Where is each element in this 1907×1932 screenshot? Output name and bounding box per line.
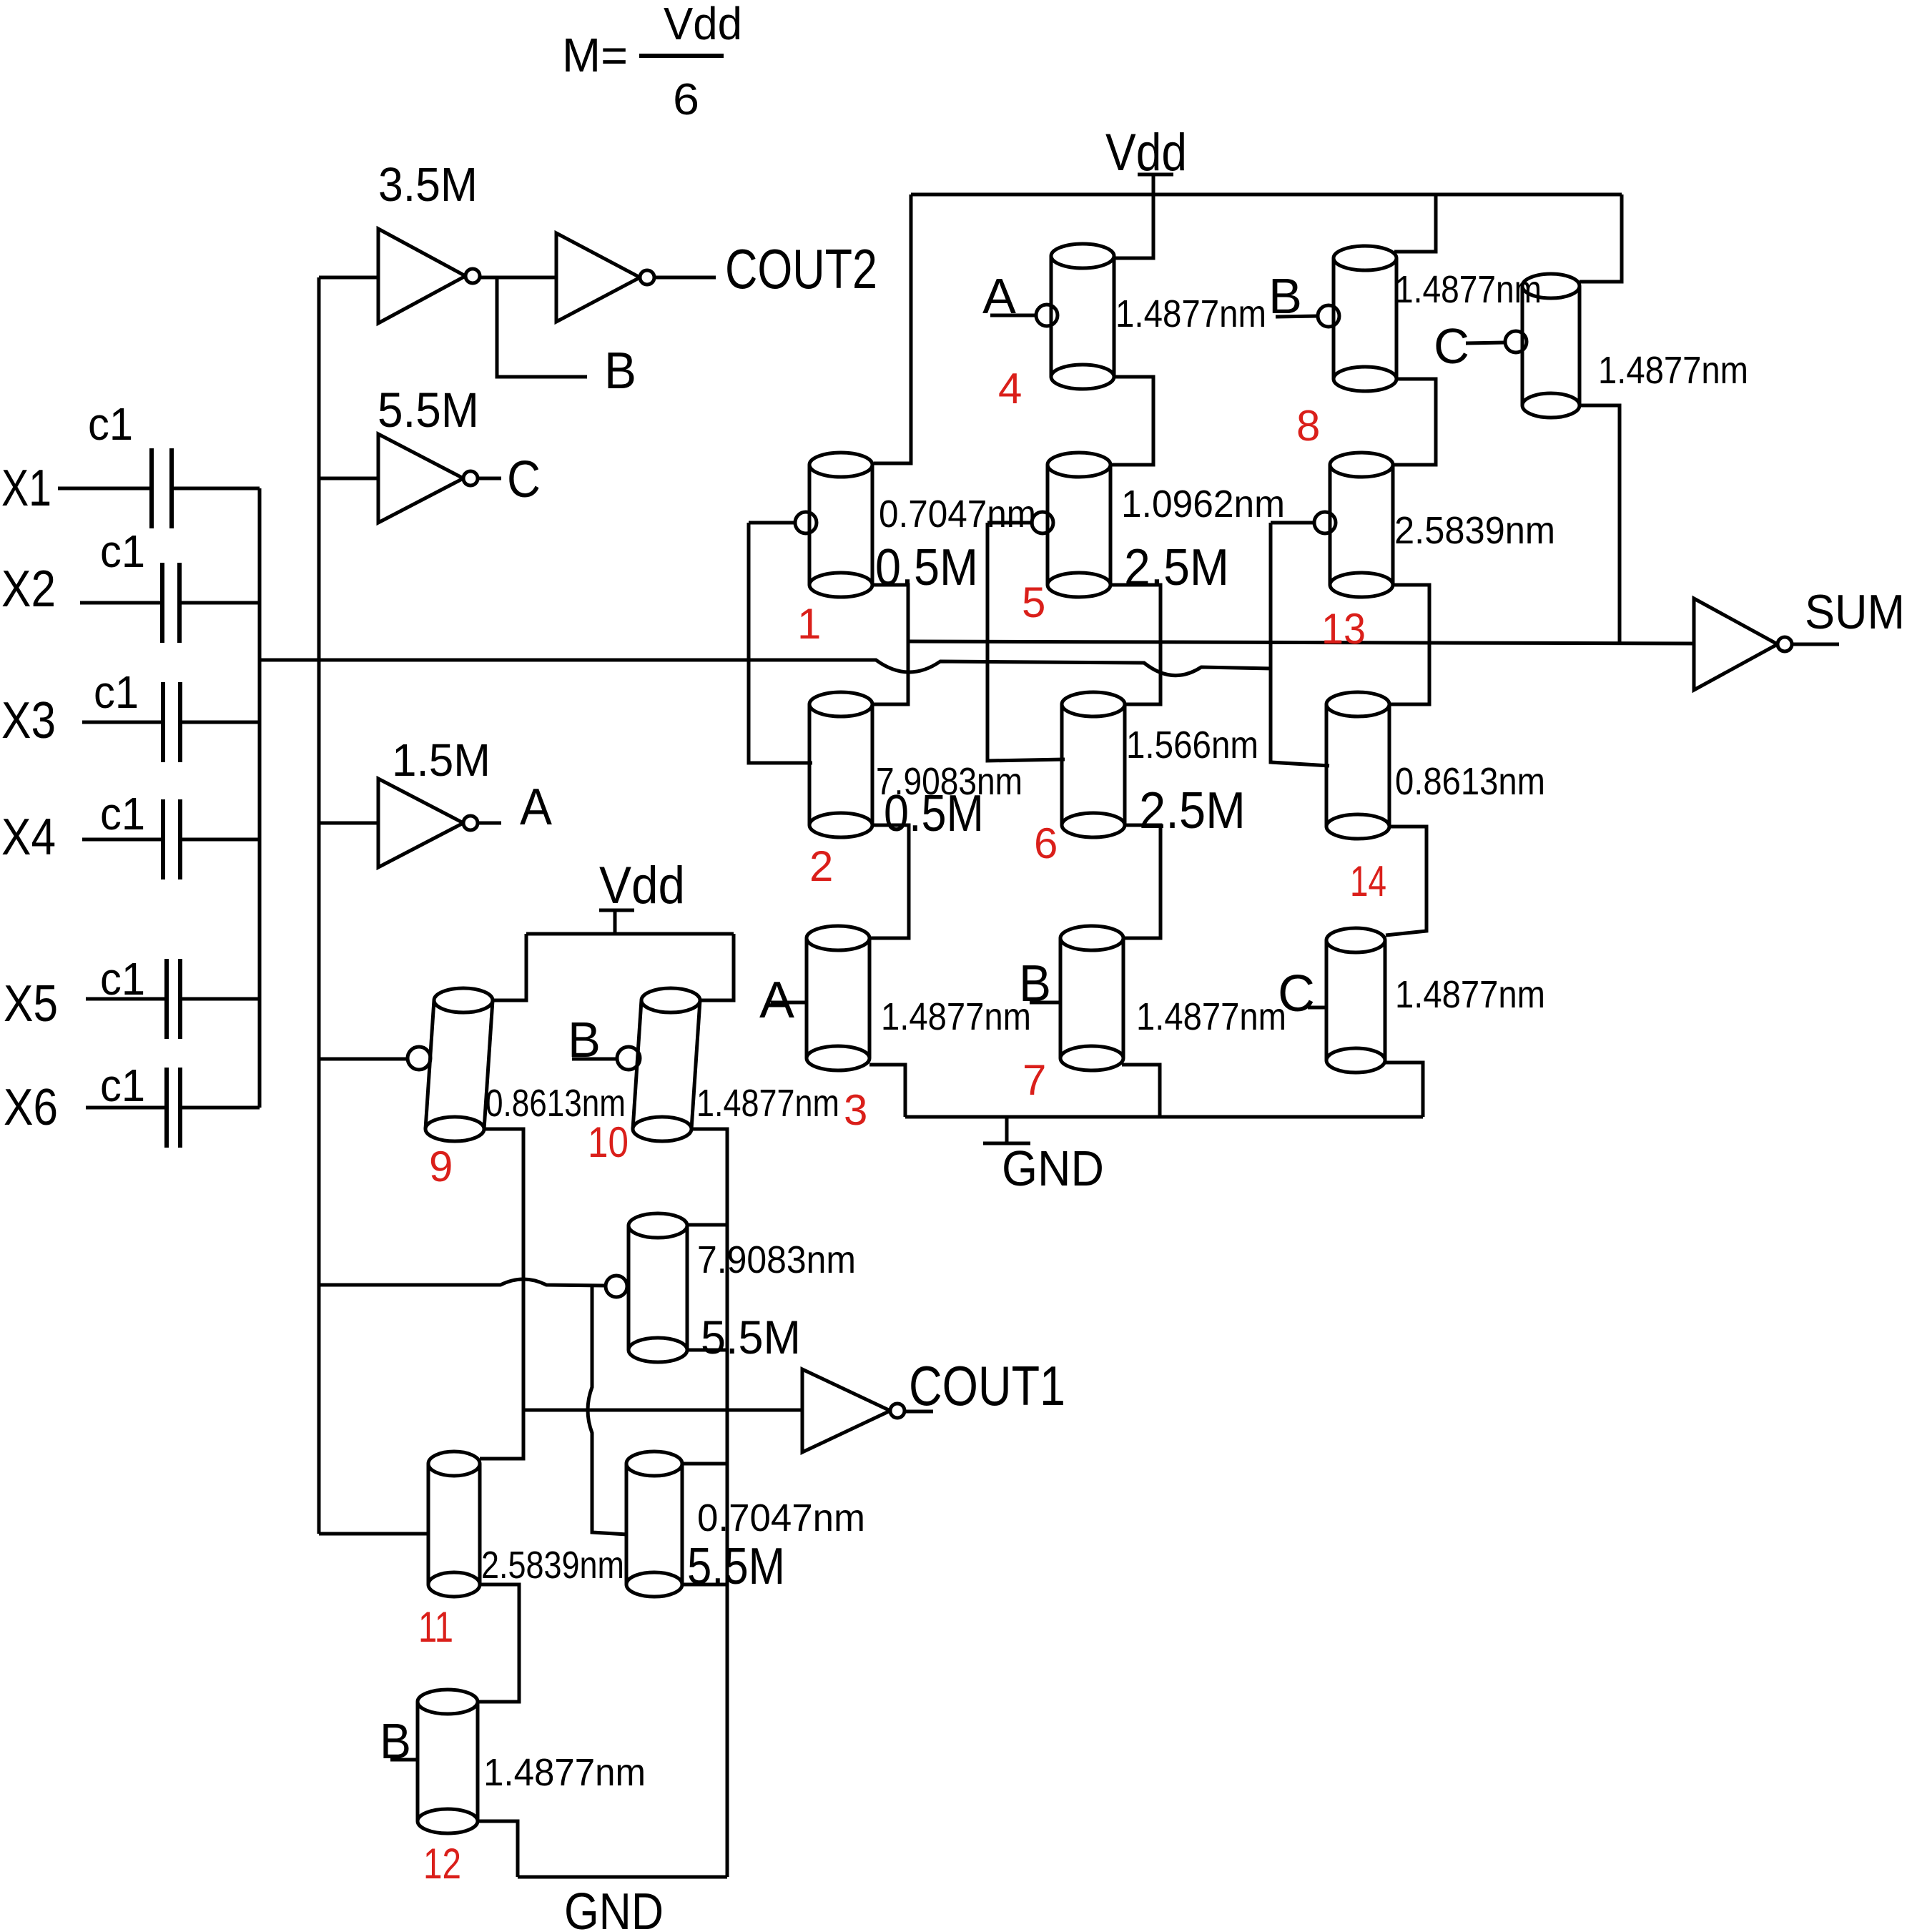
wire A to transistor 3 gate bbox=[771, 1001, 807, 1005]
gate bubble transistor 10 bbox=[617, 1047, 640, 1070]
svg-text:5.5M: 5.5M bbox=[378, 383, 479, 438]
transistor 1 (PMOS CNTFET, 0.7047nm 0.5M) bbox=[809, 453, 872, 597]
svg-text:c1: c1 bbox=[94, 666, 139, 718]
wire C to transistor C8 gate bbox=[1466, 342, 1505, 343]
inverter U1 (3.5M) bbox=[378, 229, 480, 323]
wire gate branch down to 0.7047nm transistor gate (hop over COUT1 net) bbox=[588, 1286, 627, 1534]
transistor 9 (PMOS CNTFET, 0.8613nm) bbox=[425, 988, 493, 1141]
svg-text:14: 14 bbox=[1350, 857, 1386, 905]
transistor 10 (PMOS CNTFET, 1.4877nm) bbox=[633, 988, 700, 1141]
formula M = Vdd/6 bbox=[562, 0, 742, 124]
wire X5 to capacitor bbox=[86, 997, 167, 1001]
gate bubble 7.9083nm transistor bbox=[606, 1276, 627, 1297]
svg-text:A: A bbox=[759, 972, 794, 1029]
svg-text:X6: X6 bbox=[4, 1079, 58, 1136]
transistor 3 (NMOS CNTFET, A gate, 1.4877nm) bbox=[807, 926, 869, 1070]
capacitor c1 (X1) bbox=[152, 448, 172, 528]
wire transistor 2 to transistor 3 bbox=[869, 825, 909, 938]
wire C to transistor C14 gate bbox=[1308, 1006, 1325, 1010]
svg-text:1: 1 bbox=[797, 600, 821, 648]
svg-text:c1: c1 bbox=[100, 953, 145, 1005]
wire node B tap bbox=[497, 277, 587, 377]
svg-text:1.5M: 1.5M bbox=[392, 734, 491, 786]
svg-text:0.5M: 0.5M bbox=[875, 539, 978, 596]
svg-text:c1: c1 bbox=[88, 398, 133, 450]
svg-text:1.4877nm: 1.4877nm bbox=[1395, 973, 1545, 1016]
svg-text:1.4877nm: 1.4877nm bbox=[881, 995, 1031, 1038]
capacitor c1 (X6) bbox=[167, 1068, 180, 1148]
svg-text:1.4877nm: 1.4877nm bbox=[483, 1751, 646, 1794]
wire B to transistor 7 gate bbox=[1030, 1001, 1061, 1005]
wire transistor C14 to ground rail bbox=[1385, 1063, 1423, 1117]
transistor N16 (NMOS CNTFET, 0.7047nm 5.5M) bbox=[626, 1452, 682, 1597]
svg-text:3.5M: 3.5M bbox=[378, 158, 478, 212]
svg-text:1.4877nm: 1.4877nm bbox=[1115, 292, 1266, 335]
svg-text:Vdd: Vdd bbox=[664, 0, 742, 49]
wire X1 to capacitor bbox=[58, 487, 152, 491]
Vdd symbol (COUT1 network) bbox=[599, 910, 634, 934]
transistor 5 (PMOS CNTFET, 1.0962nm 2.5M) bbox=[1048, 453, 1110, 597]
svg-text:C: C bbox=[1434, 318, 1469, 374]
transistor 14 (NMOS CNTFET, 0.8613nm) bbox=[1326, 692, 1389, 839]
svg-text:Vdd: Vdd bbox=[599, 857, 685, 915]
svg-text:0.7047nm: 0.7047nm bbox=[697, 1497, 865, 1539]
wire U4 output to A bbox=[478, 822, 501, 825]
transistor 13 (PMOS CNTFET, 2.5839nm) bbox=[1330, 453, 1393, 597]
svg-text:X4: X4 bbox=[1, 809, 56, 866]
wire bus to inverter U3 bbox=[319, 477, 378, 480]
gate loop transistors 13/14 bbox=[1271, 523, 1329, 766]
wire X2 to capacitor bbox=[80, 601, 162, 605]
svg-text:1.4877nm: 1.4877nm bbox=[696, 1082, 839, 1125]
wire rail down to transistor 1 bbox=[874, 194, 911, 463]
svg-text:11: 11 bbox=[418, 1603, 453, 1651]
wire U3 output to C bbox=[478, 477, 501, 480]
gate loop transistors 5/6 (2.5M pair) bbox=[987, 523, 1065, 761]
svg-text:6: 6 bbox=[673, 75, 699, 124]
inverter feed bus bbox=[317, 277, 321, 1534]
svg-text:2: 2 bbox=[809, 842, 833, 890]
wire capacitor (X4) to bus bbox=[180, 838, 260, 842]
svg-text:COUT1: COUT1 bbox=[909, 1354, 1065, 1417]
wire capacitor (X5) to bus bbox=[180, 997, 260, 1001]
svg-text:M=: M= bbox=[562, 29, 628, 82]
gate bubble transistor 9 bbox=[408, 1047, 430, 1070]
svg-text:SUM: SUM bbox=[1805, 585, 1905, 639]
transistor C8 (PMOS CNTFET, 1.4877nm) bbox=[1522, 274, 1580, 418]
svg-text:6: 6 bbox=[1034, 819, 1058, 867]
wire tap to 7.9083nm transistor top bbox=[688, 1223, 727, 1227]
svg-text:5.5M: 5.5M bbox=[701, 1311, 801, 1364]
svg-text:COUT2: COUT2 bbox=[725, 237, 877, 300]
Vdd symbol (SUM network) bbox=[1138, 174, 1173, 194]
gate bubble transistor 4 bbox=[1036, 305, 1058, 326]
svg-text:2.5839nm: 2.5839nm bbox=[1394, 509, 1555, 552]
wire bus to inverter U4 bbox=[319, 822, 378, 825]
gate bubble transistor C8 bbox=[1505, 331, 1527, 353]
svg-text:1.4877nm: 1.4877nm bbox=[1598, 349, 1748, 392]
svg-text:0.7047nm: 0.7047nm bbox=[879, 493, 1036, 536]
transistor 12 (NMOS CNTFET, B gate, 1.4877nm) bbox=[418, 1690, 478, 1833]
svg-text:1.4877nm: 1.4877nm bbox=[1395, 268, 1542, 311]
gate loop transistors 1/2 (0.5M pair) bbox=[749, 523, 812, 763]
Vdd rail (COUT1 network) bbox=[526, 932, 734, 936]
svg-text:A: A bbox=[520, 779, 552, 836]
wire rail down to transistor 9 bbox=[485, 934, 526, 1000]
svg-text:1.0962nm: 1.0962nm bbox=[1121, 483, 1285, 526]
wire X3 to capacitor bbox=[82, 721, 163, 724]
wire transistor 3 to ground rail bbox=[869, 1065, 905, 1117]
wire B to transistor 8 gate bbox=[1276, 316, 1318, 317]
transistor 11 (NMOS CNTFET, 2.5839nm) bbox=[428, 1452, 480, 1597]
ground rail (SUM network) bbox=[905, 1115, 1423, 1119]
svg-text:2.5M: 2.5M bbox=[1139, 782, 1246, 839]
svg-text:10: 10 bbox=[588, 1118, 629, 1166]
wire transistor 7 to ground rail bbox=[1122, 1065, 1160, 1117]
gate bubble transistor 5 bbox=[1032, 512, 1053, 533]
svg-text:X3: X3 bbox=[1, 692, 56, 749]
svg-text:7.9083nm: 7.9083nm bbox=[697, 1238, 856, 1281]
wire B to transistor 10 gate bbox=[572, 1058, 618, 1061]
wire transistor 1 to transistor 2 (drain node) bbox=[873, 585, 908, 704]
wire bus to inverter U1 bbox=[319, 276, 378, 280]
gate bubble transistor 13 bbox=[1314, 512, 1336, 533]
inverter U2 (COUT2 driver) bbox=[556, 233, 654, 322]
transistor P15 (PMOS CNTFET, 7.9083nm 5.5M) bbox=[629, 1213, 687, 1362]
wire transistor 14 to transistor C14 bbox=[1386, 827, 1426, 935]
wire rail down to transistor 4 bbox=[1114, 194, 1153, 258]
wire bus to transistor 11 gate bbox=[319, 1532, 430, 1536]
svg-text:B: B bbox=[604, 342, 636, 400]
wire 7.9083nm transistor bottom tap bbox=[688, 1349, 727, 1352]
wire transistor 11 to transistor 12 bbox=[478, 1584, 519, 1702]
transistor 7 (NMOS CNTFET, B gate, 1.4877nm) bbox=[1060, 926, 1123, 1070]
wire capacitor (X2) to bus bbox=[179, 601, 260, 605]
svg-text:7: 7 bbox=[1023, 1056, 1046, 1104]
svg-text:GND: GND bbox=[564, 1883, 664, 1932]
svg-text:X1: X1 bbox=[1, 460, 51, 517]
svg-text:9: 9 bbox=[429, 1143, 453, 1191]
wire U5 to SUM bbox=[1792, 643, 1839, 646]
svg-text:c1: c1 bbox=[100, 788, 145, 839]
output net wire to SUM inverter bbox=[908, 641, 1694, 644]
gate bubble transistor 8 bbox=[1318, 305, 1339, 327]
wire U6 to COUT1 bbox=[905, 1410, 933, 1414]
capacitor c1 (X5) bbox=[167, 959, 180, 1039]
svg-text:2.5839nm: 2.5839nm bbox=[481, 1544, 624, 1587]
svg-text:5: 5 bbox=[1022, 578, 1045, 626]
wire transistor 6 to transistor 7 bbox=[1123, 825, 1161, 938]
wire X4 to capacitor bbox=[82, 838, 163, 842]
ground rail (COUT1 network) bbox=[518, 1876, 727, 1879]
wire A to transistor 4 gate bbox=[990, 314, 1036, 317]
gate bubble transistor 1 bbox=[795, 512, 817, 533]
svg-text:GND: GND bbox=[1002, 1140, 1104, 1196]
wire rail down to transistor C8 bbox=[1580, 194, 1622, 282]
transistor 2 (NMOS CNTFET, 7.9083nm 0.5M) bbox=[809, 692, 872, 837]
transistor 4 (PMOS CNTFET, 1.4877nm) bbox=[1051, 244, 1114, 389]
capacitor summing bus (floating gate node) bbox=[258, 488, 262, 1108]
svg-text:1.566nm: 1.566nm bbox=[1126, 724, 1258, 767]
svg-text:2.5M: 2.5M bbox=[1124, 539, 1229, 596]
capacitor c1 (X3) bbox=[163, 682, 180, 762]
wire transistor 0.7047nm bottom tap bbox=[681, 1583, 727, 1587]
wire rail down to transistor 10 bbox=[693, 934, 734, 1000]
svg-text:0.8613nm: 0.8613nm bbox=[1395, 760, 1545, 803]
svg-text:5.5M: 5.5M bbox=[687, 1538, 785, 1595]
wire transistor 8 to transistor 13 bbox=[1393, 379, 1436, 465]
wire COUT1 node bbox=[523, 1409, 802, 1412]
svg-text:4: 4 bbox=[998, 365, 1022, 413]
wire U1 output to U2 bbox=[480, 276, 556, 280]
wire capacitor (X3) to bus bbox=[180, 721, 260, 724]
wire transistor 0.7047nm top tap bbox=[681, 1462, 727, 1466]
svg-text:c1: c1 bbox=[100, 1060, 145, 1111]
transistor 8 (PMOS CNTFET, 1.4877nm) bbox=[1334, 246, 1396, 391]
svg-text:X2: X2 bbox=[1, 561, 56, 618]
transistor 6 (NMOS CNTFET, 1.566nm 2.5M) bbox=[1062, 692, 1125, 837]
wire transistor 12 to ground rail bbox=[478, 1821, 518, 1877]
svg-text:X5: X5 bbox=[4, 975, 58, 1032]
svg-text:0.5M: 0.5M bbox=[884, 785, 984, 842]
Vdd rail (SUM network) bbox=[911, 193, 1622, 197]
capacitor c1 (X2) bbox=[162, 563, 179, 643]
wire transistor 13 to transistor 14 (drain node) bbox=[1389, 585, 1429, 704]
wire capacitor (X6) to bus bbox=[180, 1106, 260, 1110]
wire B to transistor 12 gate bbox=[390, 1758, 418, 1762]
wire rail down to transistor 8 bbox=[1394, 194, 1436, 252]
svg-text:8: 8 bbox=[1296, 402, 1320, 450]
svg-text:c1: c1 bbox=[100, 526, 145, 577]
wire transistor 9 down to COUT1 node and transistor 11 bbox=[480, 1129, 523, 1459]
inverter U6 (COUT1 driver) bbox=[802, 1369, 905, 1452]
capacitor c1 (X4) bbox=[163, 799, 180, 879]
wire capacitor (X1) to bus bbox=[172, 487, 260, 491]
wire transistor 4 to transistor 5 bbox=[1110, 377, 1153, 465]
svg-text:C: C bbox=[507, 451, 541, 508]
wire gate net (bus to 7.9083nm gate, hop over vertical) bbox=[319, 1279, 606, 1286]
svg-text:3: 3 bbox=[844, 1086, 867, 1134]
inverter U4 (1.5M) bbox=[378, 779, 478, 867]
transistor C14 (NMOS CNTFET, C gate, 1.4877nm) bbox=[1326, 928, 1385, 1073]
wire transistor C8 down to output net bbox=[1580, 405, 1620, 643]
svg-text:12: 12 bbox=[423, 1840, 461, 1888]
ground symbol (SUM network) bbox=[983, 1117, 1030, 1143]
inverter U5 (SUM driver) bbox=[1694, 598, 1792, 690]
inverter U3 (5.5M) bbox=[378, 434, 478, 523]
wire main input net from bus to gate network (with crossover hops) bbox=[260, 660, 1272, 676]
wire transistor 5 to transistor 6 (drain node) bbox=[1110, 585, 1161, 704]
wire X6 to capacitor bbox=[86, 1106, 167, 1110]
wire U2 to COUT2 bbox=[654, 276, 716, 280]
wire bus to transistor 9 gate bbox=[319, 1058, 408, 1061]
svg-text:1.4877nm: 1.4877nm bbox=[1136, 995, 1286, 1038]
wire transistor 10 down through 7.9083nm taps to ground riser bbox=[693, 1129, 727, 1877]
svg-text:13: 13 bbox=[1321, 605, 1366, 653]
